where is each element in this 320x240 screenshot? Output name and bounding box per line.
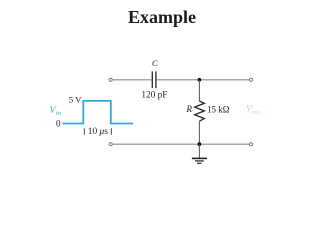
node junction top: [198, 78, 202, 82]
wire junction to resistor: [198, 80, 200, 101]
svg-text:out: out: [251, 109, 259, 116]
input pulse waveform Vin: [63, 101, 134, 124]
terminal bottom-right: [249, 143, 252, 146]
svg-text:10 μs: 10 μs: [88, 127, 108, 137]
svg-text:Example: Example: [128, 7, 196, 27]
svg-text:120 pF: 120 pF: [141, 91, 167, 101]
svg-text:C: C: [152, 58, 158, 68]
pulse width tick right: [110, 128, 112, 135]
wire resistor to bottom: [198, 121, 200, 144]
svg-text:in: in: [56, 110, 61, 117]
ground bar 1: [192, 157, 207, 159]
pulse width tick left: [83, 128, 85, 135]
resistor R zigzag: [195, 101, 205, 121]
terminal bottom-left: [109, 143, 112, 146]
svg-text:5 V: 5 V: [69, 95, 82, 105]
node junction bottom: [198, 142, 202, 146]
ground bar 3: [197, 162, 201, 164]
terminal top-left: [109, 78, 112, 81]
capacitor C1 plates: [152, 71, 156, 88]
svg-text:R: R: [185, 104, 192, 114]
wire top right: [157, 79, 249, 81]
ground stem: [198, 144, 200, 158]
ground bar 2: [195, 160, 204, 162]
wire bottom: [113, 143, 250, 145]
svg-text:0: 0: [56, 118, 61, 128]
svg-text:15 kΩ: 15 kΩ: [207, 105, 230, 115]
terminal top-right: [249, 78, 252, 81]
wire top left: [113, 79, 152, 81]
